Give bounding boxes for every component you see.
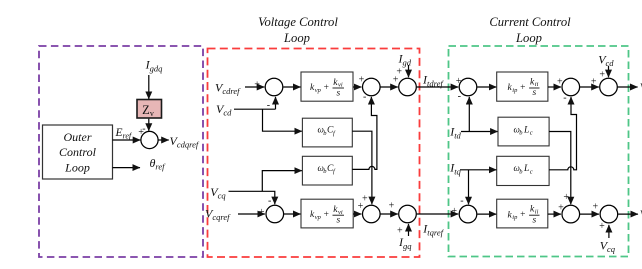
wire Vcq into C3q	[608, 225, 610, 238]
svg-text:Itd: Itd	[449, 124, 461, 140]
svg-text:+: +	[599, 69, 606, 80]
svg-text:+: +	[520, 210, 526, 220]
wire Eref	[113, 139, 141, 141]
svg-text:Vcdqref: Vcdqref	[170, 134, 200, 150]
block wbCf d	[302, 118, 352, 147]
svg-text:Itqref: Itqref	[422, 221, 444, 237]
wire C2q to C3q	[580, 213, 599, 215]
block PI voltage q	[301, 199, 353, 228]
wire PI to sum V2q	[353, 213, 361, 215]
wire Vcd into C3d	[608, 66, 610, 77]
wire wbLc q output up to C2d (with hop)	[549, 97, 576, 170]
svg-text:Outer: Outer	[64, 130, 92, 144]
title Current Control Loop	[489, 15, 571, 45]
svg-text:+: +	[323, 83, 329, 93]
svg-text:Control: Control	[59, 145, 97, 159]
svg-text:-: -	[363, 92, 366, 103]
wire C2d to C3d	[580, 86, 599, 88]
block PI voltage d	[301, 72, 353, 101]
svg-text:Vcqref: Vcqref	[205, 207, 231, 223]
svg-text:-: -	[563, 92, 566, 103]
svg-text:+: +	[258, 207, 265, 218]
wire wbLc d output down to C2q	[549, 132, 571, 205]
svg-text:+: +	[520, 83, 526, 93]
svg-text:+: +	[592, 202, 599, 213]
svg-text:vp: vp	[315, 87, 322, 94]
summing junction V1d	[265, 78, 283, 96]
svg-text:s: s	[533, 215, 537, 225]
wire Zv to summing junction	[148, 119, 150, 131]
svg-text:Vcq: Vcq	[600, 238, 616, 254]
svg-text:c: c	[530, 130, 533, 137]
wire V2d to V3d	[381, 86, 398, 88]
wire Igdq to Zv	[148, 75, 150, 99]
wire wbCf q output up to V2d (with hop)	[352, 97, 377, 169]
svg-text:+: +	[396, 67, 403, 78]
voltage control loop dashed box (red)	[208, 49, 420, 258]
svg-text:Igd: Igd	[398, 52, 412, 68]
summing junction C1d	[459, 78, 477, 96]
svg-text:Voltage Control: Voltage Control	[258, 15, 338, 29]
title Voltage Control Loop	[258, 15, 338, 45]
current control loop dashed box (green)	[449, 46, 629, 257]
wire Vcqref to sum	[238, 213, 265, 215]
block wbCf q	[302, 156, 352, 185]
svg-text:Loop: Loop	[64, 160, 90, 174]
summing junction V1q	[266, 205, 284, 223]
block wbLc d	[498, 117, 549, 146]
wire Itd feedback	[461, 97, 498, 132]
svg-text:Loop: Loop	[515, 31, 542, 45]
block Outer Control Loop	[43, 125, 113, 179]
svg-text:+: +	[396, 226, 403, 237]
svg-text:s: s	[337, 216, 341, 226]
block Zv	[137, 100, 162, 119]
svg-text:Vcd: Vcd	[216, 102, 232, 118]
svg-text:s: s	[337, 89, 341, 99]
wire C1d to PI	[477, 86, 496, 88]
wire Vcq feedback	[229, 171, 302, 205]
svg-text:-: -	[458, 91, 461, 102]
svg-text:+: +	[590, 77, 597, 88]
svg-text:-: -	[268, 196, 271, 207]
wire Vcdref to sum	[245, 86, 264, 88]
wire Vcdqref output	[158, 139, 169, 141]
svg-text:ip: ip	[512, 214, 518, 221]
wire V1q to PI block	[284, 213, 301, 215]
wire output d	[618, 86, 638, 88]
svg-text:Loop: Loop	[283, 31, 310, 45]
wire theta ref	[113, 167, 141, 169]
svg-text:-: -	[460, 196, 463, 207]
svg-text:ii: ii	[535, 208, 539, 215]
summing junction V3q	[399, 205, 417, 223]
block PI current q	[497, 199, 548, 228]
svg-text:Itq: Itq	[449, 160, 461, 176]
svg-text:Eref: Eref	[115, 127, 133, 141]
wire wbCf d output down to V2q	[352, 131, 372, 204]
svg-text:ii: ii	[535, 81, 539, 88]
summing junction C1q	[459, 205, 477, 223]
summing junction C3q	[600, 205, 618, 223]
svg-text:Vcdref: Vcdref	[215, 81, 241, 97]
wire Itqref	[417, 213, 459, 215]
svg-text:Vcd: Vcd	[598, 52, 614, 68]
svg-text:Current Control: Current Control	[489, 15, 571, 29]
svg-text:+: +	[599, 221, 606, 232]
svg-text:vp: vp	[315, 214, 322, 221]
svg-text:L: L	[523, 125, 529, 135]
wire Itq feedback	[460, 170, 496, 205]
wire PI to C2q	[548, 213, 561, 215]
block PI current d	[497, 72, 548, 101]
summing junction V3d	[399, 78, 417, 96]
svg-text:+: +	[254, 80, 261, 91]
wire PI to C2d	[548, 86, 561, 88]
summing junction C2d	[562, 78, 580, 96]
wire output q	[618, 213, 638, 215]
wire Itdref	[417, 86, 459, 88]
wire PI to sum V2d	[353, 86, 361, 88]
svg-text:+: +	[323, 210, 329, 220]
svg-text:Itdref: Itdref	[422, 73, 444, 89]
outer control loop dashed box (purple)	[39, 46, 203, 257]
svg-text:Vcq: Vcq	[210, 185, 226, 201]
svg-text:s: s	[533, 88, 537, 98]
wire Vcd feedback	[234, 97, 302, 131]
block wbLc q	[497, 156, 549, 185]
summing junction V2d	[363, 78, 381, 96]
svg-text:L: L	[523, 164, 529, 174]
wire C1q to PI	[477, 213, 496, 215]
svg-text:c: c	[530, 168, 533, 175]
svg-text:+: +	[388, 200, 395, 211]
svg-text:Igq: Igq	[398, 235, 412, 251]
svg-text:+: +	[451, 206, 458, 217]
svg-text:θref: θref	[150, 156, 167, 172]
summing junction C2q	[562, 205, 580, 223]
wire Igq into V3q	[408, 224, 410, 236]
summing junction C3d	[600, 78, 618, 96]
wire V1d to PI block	[283, 86, 300, 88]
summing junction S0	[141, 131, 158, 148]
wire V2q to V3q	[381, 213, 398, 215]
wire Igd into V3d	[408, 65, 410, 77]
svg-text:ip: ip	[512, 87, 518, 94]
summing junction V2q	[363, 205, 381, 223]
svg-text:Igdq: Igdq	[145, 57, 164, 73]
